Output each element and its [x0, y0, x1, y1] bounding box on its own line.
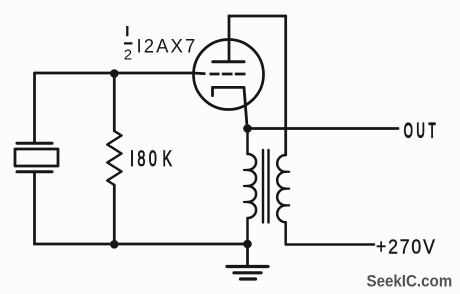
node: grid junction dot: [110, 69, 119, 78]
tube U1 envelope circle: [194, 40, 264, 110]
resistor R1 top lead: [113, 73, 116, 131]
tube U1 grid dashed line: [210, 73, 246, 76]
tube U1 plate bar: [213, 60, 244, 63]
crystal XTAL body rectangle: [15, 149, 58, 166]
ground bar 3: [241, 277, 256, 280]
label 180K resistor value: [130, 146, 175, 171]
resistor R1 zigzag body: [107, 131, 121, 185]
label +270V supply: [376, 236, 437, 258]
transformer T1 secondary pinch ticks: [286, 172, 290, 206]
wire: left vertical to crystal top: [33, 73, 36, 143]
wire: bottom ground bus: [35, 243, 248, 246]
transformer T1 primary pinch ticks: [244, 170, 248, 202]
label OUT: [404, 118, 440, 143]
label 1/2 fraction of tube: [124, 26, 132, 43]
transformer T1 secondary winding (right): [277, 155, 374, 245]
wire: top rail plate to transformer secondary: [229, 15, 286, 18]
tube U1 plate lead up: [228, 16, 231, 62]
node: bottom resistor junction dot: [110, 240, 119, 249]
transformer T1 primary winding (left): [248, 129, 257, 245]
crystal XTAL top plate: [17, 142, 52, 145]
svg-text:I2AX7: I2AX7: [137, 36, 198, 58]
transformer T1 core lines: [263, 150, 269, 223]
crystal XTAL bottom plate: [17, 170, 52, 173]
wire: OUT line: [248, 127, 399, 130]
ground stem: [246, 244, 249, 267]
node: cathode/OUT junction dot: [243, 124, 252, 133]
wire: grid bus from crystal top to tube grid: [35, 72, 206, 76]
ground bar 1: [227, 265, 268, 268]
wire: crystal bottom lead down: [33, 172, 36, 244]
tube U1 cathode with hook: [213, 87, 248, 128]
node: primary/ground junction dot: [243, 240, 252, 249]
svg-text:OUT: OUT: [404, 118, 440, 143]
svg-text:I80K: I80K: [130, 146, 175, 171]
wire: right vertical down to secondary winding: [284, 16, 287, 155]
watermark SeekIC.com: [367, 272, 453, 291]
svg-text:2: 2: [124, 46, 132, 63]
ground bar 2: [234, 271, 261, 274]
resistor R1 bottom lead: [113, 185, 116, 244]
svg-text:SeekIC.com: SeekIC.com: [367, 272, 453, 291]
svg-text:+270V: +270V: [376, 236, 437, 258]
label 12AX7 tube type: [137, 36, 198, 58]
